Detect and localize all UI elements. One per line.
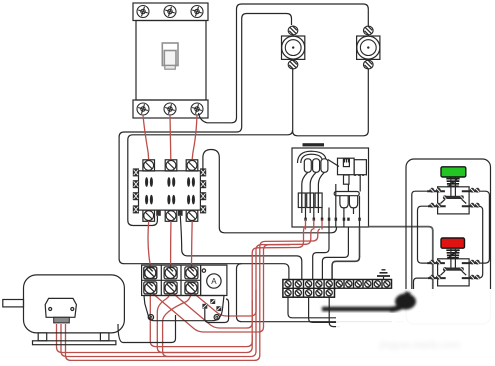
wire green lower-left down to red upper-left bbox=[418, 206, 428, 263]
wire contactor T1 to overload L1 bbox=[148, 221, 150, 268]
red moving bridge bbox=[443, 268, 463, 271]
green button stem bbox=[451, 178, 456, 198]
contactor main body bbox=[139, 171, 201, 210]
wire green NO down left side bbox=[412, 191, 427, 290]
wire branch from stop-node down to bottom run bbox=[237, 264, 405, 322]
breaker top screw 2 bbox=[164, 6, 176, 18]
ground symbol bbox=[377, 270, 390, 280]
red upper-right contact bbox=[462, 260, 480, 265]
fuse FU2 (right) bbox=[357, 26, 380, 69]
strip 2row screws top bbox=[285, 281, 332, 287]
contactor top screw 1 bbox=[144, 161, 154, 171]
wire breaker L2 to contactor bbox=[169, 115, 172, 159]
green lower-left contact bbox=[428, 203, 446, 208]
red wire overload T2 down to bundle bbox=[157, 290, 200, 353]
overload aux terminal 95 bbox=[202, 304, 207, 309]
motor cable gland bbox=[54, 317, 70, 323]
contactor KM bbox=[143, 160, 198, 171]
red bridge blades bbox=[441, 271, 467, 275]
bimetal loop 2 bbox=[313, 159, 320, 173]
motor shaft bbox=[3, 300, 24, 307]
strip 2row screws bottom bbox=[285, 290, 332, 296]
contactor bottom screw 2 bbox=[166, 211, 176, 221]
motor foot left bbox=[38, 333, 47, 341]
wire contactor T3 to overload L3 bbox=[191, 221, 194, 268]
bimetal top bar bbox=[303, 143, 325, 146]
overload aux terminal 97 bbox=[216, 306, 221, 311]
green start button cap bbox=[441, 167, 466, 177]
strip 1row screws bbox=[336, 281, 390, 287]
wire breaker L3 to contactor bbox=[192, 115, 197, 159]
overload aux wire loop bbox=[205, 299, 229, 323]
red wire overload T1 down to bundle bbox=[150, 290, 252, 347]
green button spring bbox=[446, 178, 459, 187]
overload lower body bbox=[144, 296, 224, 321]
wire loop inner: around contactor to terminal strip 1 bbox=[119, 127, 289, 281]
red diagonal overload T1 to trunk bbox=[152, 245, 291, 332]
wire relay pin to strip col4 bbox=[313, 227, 329, 280]
red button stem bbox=[451, 249, 456, 269]
wire relay pin to strip col2 bbox=[322, 227, 348, 280]
bimetal loop 3 bbox=[321, 159, 328, 173]
overload grid lines bbox=[142, 265, 201, 295]
terminal strip two-row section bbox=[283, 280, 335, 298]
red upper-left contact bbox=[427, 260, 445, 265]
heater element 2 bbox=[307, 193, 314, 208]
relay pin feet bbox=[304, 218, 361, 221]
wire red NC lower-left down bbox=[414, 278, 428, 291]
red bundle wire 2: motor V to relay pin 2 bbox=[61, 229, 313, 357]
wire U between fuse bottoms bbox=[293, 66, 369, 136]
fuse FU1 (left) bbox=[282, 26, 305, 69]
black wire near motor base bbox=[118, 315, 176, 343]
svg-text:jingyan.baidu.com: jingyan.baidu.com bbox=[379, 340, 461, 351]
red lower-left contact bbox=[428, 275, 446, 280]
contactor left side lugs bbox=[133, 169, 138, 213]
motor base plate bbox=[33, 341, 116, 345]
green button body bbox=[438, 187, 470, 214]
red lower-right contact bbox=[462, 275, 480, 280]
mech side right bbox=[354, 196, 360, 227]
adjuster block bbox=[338, 158, 355, 175]
adjuster screw bbox=[343, 159, 349, 167]
push button station box bbox=[406, 159, 491, 324]
overload mount hole left bbox=[148, 315, 153, 320]
wire contactor coil to control run bbox=[180, 216, 301, 280]
watermark smudge over strip bbox=[336, 289, 405, 303]
wire breaker L1 to contactor bbox=[143, 115, 149, 159]
wire from breaker output L3 to right fuse top bbox=[199, 4, 369, 123]
green bridge contact dots bbox=[443, 195, 447, 199]
overload relay internal schematic box bbox=[292, 148, 369, 227]
wire contactor aux lug over to relay pin bbox=[203, 150, 337, 233]
red button spring bbox=[446, 250, 459, 259]
breaker body bbox=[136, 21, 206, 101]
bimetal loop 1 bbox=[304, 159, 311, 173]
heater conductor 3 bbox=[318, 172, 324, 213]
contact finger 1 bbox=[340, 196, 348, 208]
red diagonal overload T3 to trunk bbox=[193, 290, 256, 316]
green upper-left contact bbox=[427, 188, 445, 193]
heater conductor 1 bbox=[302, 172, 308, 213]
contactor top terminal blocks bbox=[143, 160, 155, 171]
contactor bottom screw 1 bbox=[144, 211, 154, 221]
relay pins bottom bbox=[306, 184, 349, 227]
green upper-right contact bbox=[462, 188, 480, 193]
thermal overload relay FR terminal block bbox=[142, 265, 201, 295]
wire contactor T2 to overload L2 bbox=[170, 221, 172, 268]
wire feeding left fuse top bbox=[242, 14, 292, 127]
overload screw L2 bbox=[164, 267, 177, 279]
circuit breaker QF top terminal block bbox=[133, 3, 208, 21]
overload screw T3 bbox=[185, 282, 198, 294]
overload screw T2 bbox=[164, 282, 177, 294]
contactor contact ovals row 1 bbox=[145, 177, 195, 187]
motor terminal box screws bbox=[49, 308, 52, 311]
blurred thick wire to red button bbox=[322, 292, 416, 310]
breaker toggle handle bbox=[162, 43, 178, 69]
red bundle wire 1: motor U to relay pin 1 bbox=[57, 226, 306, 353]
contact bar bbox=[334, 192, 359, 196]
heater conductor 2 bbox=[310, 172, 316, 213]
red stop button cap bbox=[441, 238, 465, 248]
svg-text:A: A bbox=[211, 277, 217, 286]
red diagonal overload T2 to trunk bbox=[172, 293, 252, 329]
overload ampere dial bbox=[207, 274, 221, 288]
heater element 3 bbox=[315, 193, 322, 208]
contact finger 2 bbox=[349, 196, 357, 208]
green moving bridge bbox=[443, 196, 463, 199]
dashed link bbox=[354, 174, 366, 176]
relay red pin tails bbox=[306, 220, 323, 230]
strip row divider bbox=[283, 287, 335, 289]
heater pins over elements bbox=[302, 193, 319, 208]
overload aux terminal 96 bbox=[210, 299, 215, 304]
breaker top screw 3 bbox=[191, 6, 203, 18]
mech side left bbox=[336, 175, 360, 227]
strip col dividers bbox=[293, 280, 324, 298]
contactor top screw 3 bbox=[187, 161, 197, 171]
red button body bbox=[438, 259, 470, 286]
lever diagonal bbox=[328, 160, 339, 167]
contactor contact ovals row 2 bbox=[145, 195, 195, 205]
strip bottom wires bbox=[288, 297, 340, 326]
contactor coil terminal A1 bbox=[156, 210, 161, 215]
motor M body bbox=[24, 275, 125, 333]
breaker bottom screw 2 bbox=[164, 103, 176, 115]
red wire overload T3 down to bundle bbox=[163, 290, 200, 357]
green bridge blades bbox=[441, 199, 467, 203]
cam block right bbox=[354, 160, 366, 175]
overload indicator dot bbox=[202, 269, 205, 272]
watermark whiteout bottom-right bbox=[392, 289, 495, 366]
wire green lower-right down bbox=[479, 206, 483, 278]
red bridge contact dots bbox=[443, 267, 447, 271]
breaker bottom screw 1 bbox=[137, 103, 149, 115]
contactor coil terminal A2 bbox=[178, 210, 183, 215]
motor terminal box bbox=[45, 298, 76, 317]
motor foot right bbox=[100, 333, 109, 341]
gray wire relay to button box bbox=[369, 227, 433, 296]
contactor top screw 2 bbox=[166, 161, 176, 171]
contactor right side lugs bbox=[200, 169, 205, 213]
bimetal dome curve bbox=[298, 151, 326, 163]
breaker bottom screw 3 bbox=[191, 103, 203, 115]
latch bbox=[344, 175, 350, 184]
overload screw L3 bbox=[185, 267, 198, 279]
wire loop outer: left fuse bottom around contactor, down to bottom-right blur bbox=[128, 66, 293, 226]
wire green NO right to red button right bbox=[480, 191, 490, 263]
breaker top screw 1 bbox=[137, 6, 149, 18]
contactor bottom terminal blocks bbox=[143, 210, 198, 221]
wire relay pin to strip col3 bbox=[332, 227, 359, 280]
overload mount hole right bbox=[214, 315, 219, 320]
contactor bottom screw 3 bbox=[187, 211, 197, 221]
overload screw L1 bbox=[144, 267, 157, 279]
green lower-right contact bbox=[462, 203, 480, 208]
overload right panel bbox=[201, 265, 227, 295]
heater element 1 bbox=[298, 193, 305, 208]
overload screw T1 bbox=[144, 282, 157, 294]
breaker bottom terminal block bbox=[133, 100, 208, 118]
terminal strip one-row section bbox=[335, 280, 392, 289]
red bundle wire 3: motor W to relay pin 3 bbox=[66, 229, 321, 360]
